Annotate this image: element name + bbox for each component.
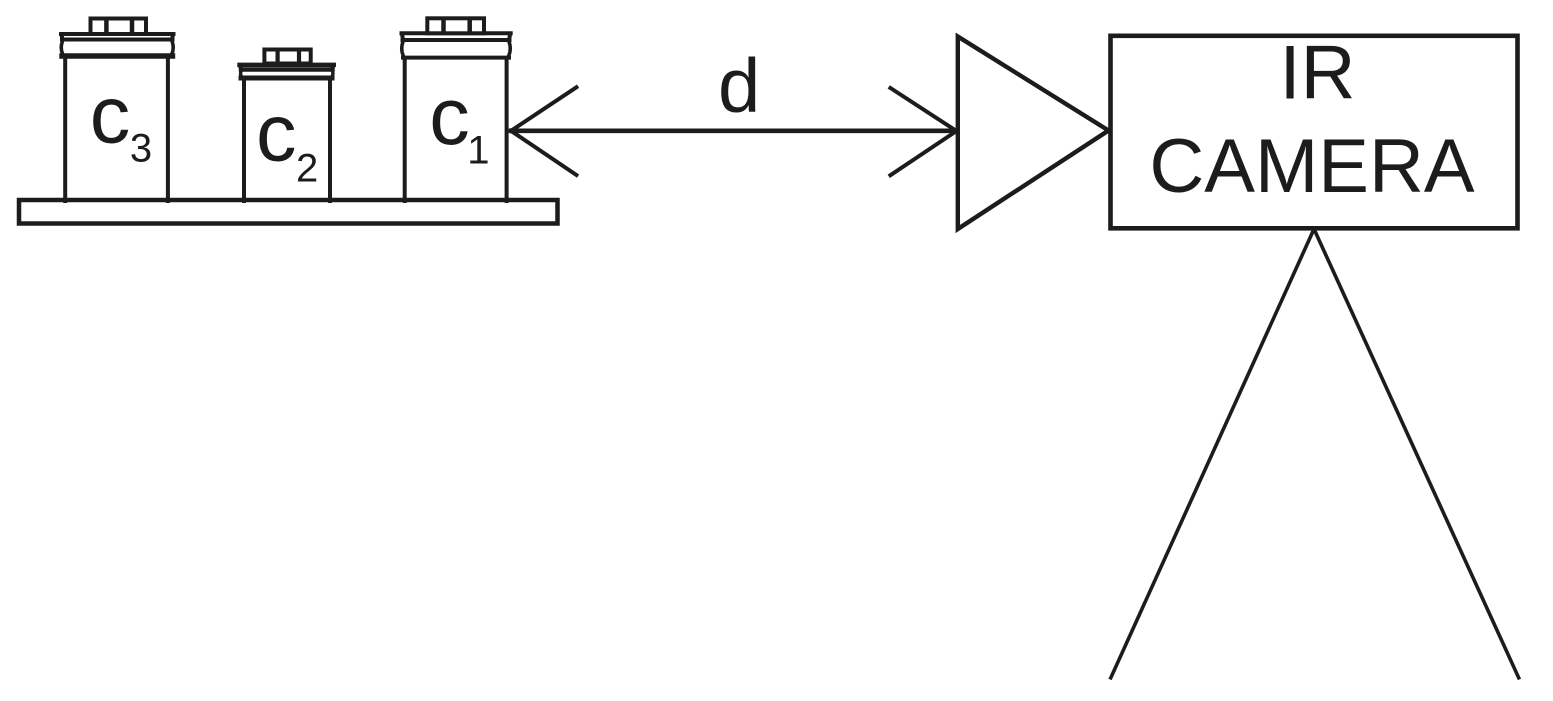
- svg-text:IR: IR: [1280, 30, 1356, 115]
- container C1 lid: [402, 33, 511, 57]
- container C2 cap knob: [264, 50, 310, 64]
- svg-text:c: c: [90, 71, 131, 161]
- container C3 lid: [61, 34, 174, 40]
- svg-text:c: c: [256, 89, 297, 179]
- container C2 lid: [240, 65, 334, 70]
- container C1 cap knob: [427, 18, 484, 33]
- container C3 neck sides: [61, 41, 173, 55]
- dimension arrow shaft (distance d): [511, 129, 957, 134]
- container C2 body: [244, 79, 330, 202]
- svg-text:3: 3: [130, 127, 152, 171]
- IR camera box: [1111, 36, 1518, 229]
- svg-text:d: d: [718, 44, 760, 129]
- dimension arrow left head: [511, 87, 576, 175]
- camera lens triangle: [958, 37, 1109, 230]
- platform (table under containers): [19, 200, 558, 224]
- container C1 body: [405, 58, 507, 201]
- container C3 cap knob: [91, 19, 147, 35]
- svg-text:2: 2: [296, 147, 318, 191]
- tripod right leg: [1314, 229, 1519, 678]
- tripod left leg: [1111, 229, 1314, 678]
- svg-text:c: c: [429, 72, 470, 162]
- container C3 body: [65, 57, 168, 202]
- dimension arrow right head: [890, 88, 956, 175]
- container C1 neck sides: [402, 42, 511, 57]
- svg-text:CAMERA: CAMERA: [1149, 124, 1474, 209]
- svg-text:1: 1: [467, 128, 489, 172]
- container C2 neck sides: [241, 71, 333, 77]
